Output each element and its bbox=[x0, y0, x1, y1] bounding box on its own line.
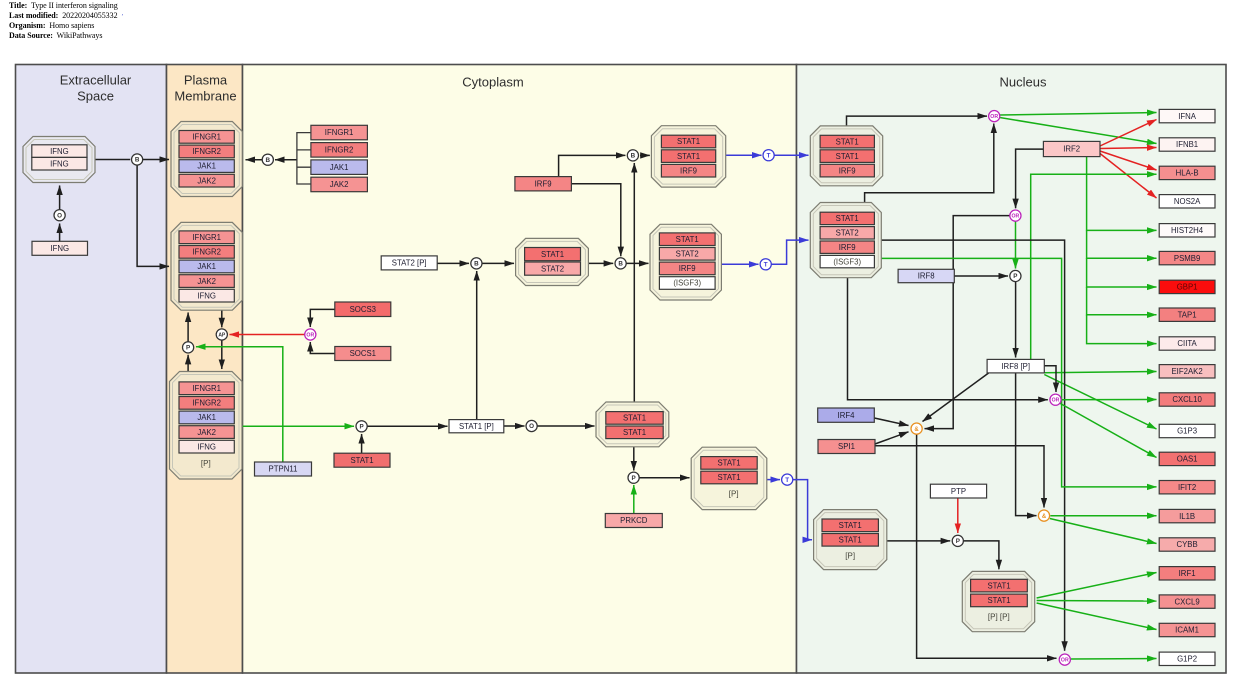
node OR nucleus top bbox=[989, 111, 1000, 122]
svg-text:STAT1: STAT1 bbox=[836, 214, 859, 223]
gene IFNGR1 free bbox=[311, 125, 368, 140]
svg-text:STAT1: STAT1 bbox=[676, 235, 699, 244]
svg-text:(ISGF3): (ISGF3) bbox=[673, 279, 701, 288]
stimulation IRF2 to PSMB9 (green) bbox=[1087, 230, 1157, 258]
metabolite STAT1 [P] bbox=[449, 420, 504, 433]
node OR IRF8P bbox=[1050, 394, 1061, 405]
stimulation ISGF3 complex to IFIT2 (green) bbox=[881, 258, 1156, 487]
node O oligomerisation bbox=[54, 210, 65, 221]
wire bracket group to B node bbox=[275, 159, 297, 161]
gene STAT1 bbox=[606, 412, 663, 425]
wire membrane complex 3 up to P node bbox=[187, 355, 189, 372]
svg-text:B: B bbox=[135, 157, 140, 164]
svg-text:IFNG: IFNG bbox=[50, 147, 69, 156]
stimulation IRF2 to TAP1 (green) bbox=[1087, 287, 1157, 315]
svg-text:OR: OR bbox=[1061, 658, 1069, 664]
wire IRF4 to AND node bbox=[874, 418, 908, 426]
node P PTP bbox=[952, 535, 963, 546]
wire AND node down to OR node bbox=[917, 434, 1057, 658]
target gene PSMB9 bbox=[1159, 251, 1215, 264]
gene JAK2 bbox=[179, 426, 234, 439]
svg-text:CIITA: CIITA bbox=[1177, 339, 1197, 348]
target gene IRF1 bbox=[1159, 567, 1215, 580]
svg-text:IRF1: IRF1 bbox=[1179, 569, 1196, 578]
gene IRF9 bbox=[820, 241, 874, 253]
gene JAK1 free bbox=[311, 160, 368, 175]
svg-text:PTPN11: PTPN11 bbox=[269, 465, 298, 474]
svg-text:STAT1: STAT1 bbox=[677, 152, 700, 161]
metabolite PTP bbox=[930, 484, 986, 498]
svg-text:Plasma: Plasma bbox=[184, 73, 228, 88]
bracket for IFNGR1/IFNGR2/JAK1/JAK2 group bbox=[297, 133, 311, 184]
gene STAT1 bbox=[701, 471, 757, 484]
gene IFNGR1 bbox=[179, 131, 234, 144]
svg-text:OAS1: OAS1 bbox=[1177, 455, 1198, 464]
svg-text:G1P2: G1P2 bbox=[1177, 655, 1197, 664]
stimulation nucleus complex D to CXCL9 (green) bbox=[1037, 600, 1157, 603]
wire B node to STAT1-STAT2 complex bbox=[482, 262, 514, 264]
gene STAT1 bbox=[820, 135, 874, 148]
gene IRF9 bbox=[661, 164, 715, 177]
gene IFNGR2 bbox=[179, 246, 234, 259]
gene IFNG bbox=[179, 289, 234, 302]
stimulation IRF8 [P] to EIF2AK2 (green) bbox=[1044, 372, 1156, 373]
wire STAT1-STAT1 complex up to B node bbox=[633, 163, 635, 402]
svg-text:STAT1: STAT1 bbox=[541, 250, 564, 259]
node B binding free group bbox=[262, 154, 273, 165]
svg-text:[P]: [P] bbox=[845, 552, 855, 561]
gene IRF2 bbox=[1043, 141, 1100, 156]
gene STAT1 bbox=[701, 457, 757, 470]
gene STAT2 bbox=[525, 262, 581, 275]
svg-text:IFNGR1: IFNGR1 bbox=[192, 133, 221, 142]
gene IRF9 bbox=[659, 262, 715, 275]
stimulation OR node to IFNA (green) bbox=[1000, 113, 1157, 116]
gene JAK1 bbox=[179, 160, 234, 173]
target gene NOS2A bbox=[1159, 195, 1215, 208]
svg-text:STAT1: STAT1 bbox=[623, 428, 646, 437]
wire B node to membrane complex 1 bbox=[143, 159, 169, 161]
node AND 2 bbox=[1038, 510, 1049, 521]
wire IRF8 [P] to OR node bbox=[1044, 366, 1056, 392]
node AND 1 bbox=[911, 423, 922, 434]
wire nucleus complex B up to OR node bbox=[865, 124, 994, 203]
svg-text:IFNA: IFNA bbox=[1178, 112, 1197, 121]
gene JAK1 bbox=[179, 260, 234, 273]
svg-text:STAT1: STAT1 bbox=[987, 596, 1010, 605]
svg-text:O: O bbox=[57, 212, 62, 219]
gene IRF8 bbox=[898, 269, 954, 282]
svg-text:IFNG: IFNG bbox=[197, 442, 216, 451]
stimulation IRF2 to CIITA (green) bbox=[1087, 315, 1157, 344]
transport ISGF3 complex to T node (blue) bbox=[721, 263, 758, 265]
gene IFNG bbox=[32, 241, 88, 255]
wire STAT1-STAT2 complex to B node bbox=[588, 262, 613, 264]
svg-text:CXCL9: CXCL9 bbox=[1175, 597, 1200, 606]
wire P node to STAT1 [P] bbox=[367, 425, 447, 427]
node B STAT1 homodimer IRF9 bbox=[627, 150, 638, 161]
svg-text:JAK1: JAK1 bbox=[197, 162, 216, 171]
wire STAT1 [P] up to B node bbox=[476, 271, 478, 420]
node P membrane bbox=[183, 342, 194, 353]
wire IRF2 to OR node bbox=[1016, 149, 1044, 208]
wire nucleus complex C to P node bbox=[887, 540, 950, 542]
svg-text:JAK1: JAK1 bbox=[197, 262, 216, 271]
svg-text:STAT1: STAT1 bbox=[836, 152, 859, 161]
svg-text:Membrane: Membrane bbox=[174, 89, 236, 104]
svg-text:B: B bbox=[631, 153, 636, 160]
complex STAT1-STAT1 [P][P] nucleus bbox=[962, 571, 1034, 631]
stimulation IRF2 to GBP1 (green) bbox=[1087, 258, 1157, 287]
svg-text:IFNGR2: IFNGR2 bbox=[192, 248, 221, 257]
stimulation OR node to IFNB1 (green) bbox=[1000, 118, 1157, 144]
svg-text:STAT1: STAT1 bbox=[839, 536, 862, 545]
node B binding extracellular bbox=[132, 154, 143, 165]
svg-text:STAT1: STAT1 bbox=[677, 137, 700, 146]
complex STAT1-STAT1 [P] nucleus bbox=[814, 510, 887, 570]
target gene GBP1 bbox=[1159, 280, 1215, 293]
compartment Cytoplasm bbox=[243, 65, 797, 674]
wire nucleus complex A to OR node bbox=[847, 116, 988, 126]
gene STAT1 bbox=[820, 150, 874, 163]
svg-text:PSMB9: PSMB9 bbox=[1174, 254, 1200, 263]
svg-text:STAT2: STAT2 bbox=[676, 250, 699, 259]
gene SPI1 bbox=[818, 440, 875, 454]
gene IFNGR1 bbox=[179, 382, 234, 395]
gene PRKCD bbox=[605, 514, 662, 528]
target gene IFIT2 bbox=[1159, 481, 1215, 494]
compartment Extracellular Space bbox=[16, 65, 167, 674]
stimulation nucleus complex D to ICAM1 (green) bbox=[1037, 603, 1157, 630]
svg-text:PRKCD: PRKCD bbox=[620, 516, 648, 525]
svg-text:GBP1: GBP1 bbox=[1177, 283, 1198, 292]
node T transport top (blue) bbox=[763, 150, 774, 161]
svg-text:IFNG: IFNG bbox=[50, 244, 69, 253]
target gene G1P2 bbox=[1159, 652, 1215, 665]
complex STAT1-STAT1-IRF9 nucleus bbox=[810, 126, 882, 186]
gene IFNGR2 free bbox=[311, 143, 368, 158]
stimulation AND node 2 to CYBB (green) bbox=[1050, 519, 1157, 544]
wire B node into membrane complex 1 right bbox=[246, 159, 263, 161]
gene IFNGR2 bbox=[179, 145, 234, 158]
target gene CIITA bbox=[1159, 337, 1215, 350]
svg-text:STAT1: STAT1 bbox=[987, 581, 1010, 590]
compartment Nucleus bbox=[797, 65, 1227, 674]
complex STAT1-STAT1 bbox=[596, 402, 669, 447]
gene JAK1 bbox=[179, 411, 234, 424]
svg-text:&: & bbox=[1042, 514, 1047, 520]
svg-text:HIST2H4: HIST2H4 bbox=[1171, 226, 1204, 235]
node OR IRF2 bbox=[1010, 210, 1021, 221]
svg-text:IRF9: IRF9 bbox=[680, 166, 697, 175]
svg-text:IFNG: IFNG bbox=[197, 291, 216, 300]
svg-text:P: P bbox=[359, 424, 363, 431]
svg-text:B: B bbox=[474, 261, 479, 268]
stimulation OR node to CXCL10 (green) bbox=[1061, 399, 1156, 401]
svg-text:Nucleus: Nucleus bbox=[1000, 75, 1047, 90]
svg-text:AP: AP bbox=[218, 332, 226, 338]
node OR SOCS bbox=[305, 329, 316, 340]
target gene CYBB bbox=[1159, 538, 1215, 551]
stimulation IRF2 to HIST2H4 (green) bbox=[1087, 157, 1157, 231]
wire IFNG complex to B node bbox=[95, 159, 130, 161]
wire IRF8 [P] down to AND node 2 bbox=[1016, 373, 1037, 516]
wire SOCS3 to OR node bbox=[310, 309, 335, 327]
svg-text:IFNGR1: IFNGR1 bbox=[192, 384, 221, 393]
target gene ICAM1 bbox=[1159, 623, 1215, 636]
target gene HLA-B bbox=[1159, 166, 1215, 179]
complex ISGF3 nucleus bbox=[810, 203, 881, 278]
gene JAK2 free bbox=[311, 177, 368, 192]
svg-text:IRF9: IRF9 bbox=[839, 166, 856, 175]
wire nucleus complex B right to OR node bottom bbox=[881, 240, 1064, 651]
gene STAT1 bbox=[822, 534, 878, 547]
target gene CXCL9 bbox=[1159, 595, 1215, 608]
svg-text:SOCS3: SOCS3 bbox=[350, 305, 376, 314]
wire IRF8 to P node bbox=[954, 275, 1008, 277]
svg-text:JAK2: JAK2 bbox=[197, 176, 216, 185]
wire SPI1 right and down to AND node 2 bbox=[875, 446, 1044, 508]
svg-text:IFNGR2: IFNGR2 bbox=[192, 147, 221, 156]
target gene IFNA bbox=[1159, 109, 1215, 122]
wire O node up to IFNG complex bbox=[59, 186, 61, 210]
target gene EIF2AK2 bbox=[1159, 365, 1215, 378]
svg-text:SOCS1: SOCS1 bbox=[350, 349, 376, 358]
inhibition IRF2 to IFNB1 (red) bbox=[1100, 148, 1157, 149]
transport T node into nucleus complex B (blue) bbox=[772, 240, 809, 264]
stimulation nucleus complex D to IRF1 (green) bbox=[1037, 573, 1157, 599]
stimulation IRF8 [P] to G1P3 (green) bbox=[1044, 375, 1156, 430]
wire nucleus complex B down to OR node bbox=[848, 278, 1048, 400]
svg-text:P: P bbox=[1013, 273, 1017, 280]
wire B node to ISGF3 complex bbox=[626, 262, 648, 264]
svg-text:Space: Space bbox=[77, 89, 114, 104]
svg-text:B: B bbox=[266, 157, 271, 164]
node P IRF8 bbox=[1010, 270, 1021, 281]
svg-text:JAK1: JAK1 bbox=[330, 163, 349, 172]
stimulation membrane complex 3 to P node (green) bbox=[242, 425, 354, 427]
wire IRF9 up and right to B node bbox=[559, 155, 626, 176]
svg-text:EIF2AK2: EIF2AK2 bbox=[1171, 367, 1202, 376]
svg-text:&: & bbox=[914, 427, 919, 433]
svg-text:IRF4: IRF4 bbox=[838, 411, 856, 420]
svg-text:STAT1: STAT1 bbox=[836, 137, 859, 146]
complex receptor membrane bottom phosphorylated bbox=[170, 372, 243, 480]
gene STAT1 bbox=[661, 135, 715, 148]
gene STAT1 bbox=[971, 594, 1028, 607]
wire B node to STAT1-STAT1-IRF9 complex bbox=[640, 154, 650, 156]
svg-text:IFNB1: IFNB1 bbox=[1176, 140, 1198, 149]
svg-text:STAT1: STAT1 bbox=[717, 473, 740, 482]
svg-text:IRF8: IRF8 bbox=[918, 272, 935, 281]
svg-text:[P] [P]: [P] [P] bbox=[988, 613, 1010, 622]
label (ISGF3) bbox=[659, 277, 715, 290]
node T transport ISGF3 (blue) bbox=[760, 259, 771, 270]
svg-text:STAT1: STAT1 bbox=[623, 414, 646, 423]
svg-text:STAT1: STAT1 bbox=[839, 521, 862, 530]
target gene TAP1 bbox=[1159, 308, 1215, 321]
svg-text:IFNGR2: IFNGR2 bbox=[325, 146, 354, 155]
svg-text:STAT2 [P]: STAT2 [P] bbox=[392, 259, 427, 268]
wire IRF8 [P] to AND node diagonal bbox=[923, 373, 989, 422]
svg-text:IRF8 [P]: IRF8 [P] bbox=[1001, 362, 1030, 371]
inhibition OR node to AP node (red) bbox=[230, 334, 305, 336]
gene IFNG bbox=[32, 145, 87, 158]
svg-text:[P]: [P] bbox=[201, 459, 211, 468]
node O STAT1 dimerisation bbox=[526, 420, 537, 431]
target gene CXCL10 bbox=[1159, 393, 1215, 406]
svg-text:STAT1: STAT1 bbox=[350, 456, 373, 465]
wire P node up to membrane complex 2 bbox=[187, 313, 189, 342]
stimulation PRKCD to P node (green) bbox=[633, 485, 635, 514]
target gene G1P3 bbox=[1159, 424, 1215, 437]
stimulation IRF8 [P] to HLA-B (green) bbox=[1031, 174, 1157, 359]
header title block bbox=[9, 1, 118, 10]
complex receptor membrane top bbox=[171, 122, 242, 197]
svg-text:IFNG: IFNG bbox=[50, 159, 69, 168]
inhibition IRF2 to HLA-B (red) bbox=[1100, 151, 1157, 170]
target gene IL1B bbox=[1159, 509, 1215, 522]
svg-text:OR: OR bbox=[1052, 398, 1060, 404]
svg-text:IFIT2: IFIT2 bbox=[1178, 483, 1196, 492]
inhibition IRF2 to IFNA (red) bbox=[1100, 120, 1157, 147]
node OR bottom bbox=[1059, 654, 1070, 665]
svg-text:T: T bbox=[785, 477, 789, 484]
svg-text:IRF9: IRF9 bbox=[679, 264, 696, 273]
gene STAT1 bbox=[606, 426, 663, 439]
gene SOCS3 bbox=[335, 302, 391, 317]
wire STAT2 [P] to B node bbox=[437, 262, 469, 264]
compartment Plasma Membrane bbox=[167, 65, 243, 674]
svg-text:IFNGR1: IFNGR1 bbox=[192, 233, 221, 242]
svg-text:JAK2: JAK2 bbox=[330, 180, 349, 189]
gene JAK2 bbox=[179, 174, 234, 187]
svg-text:HLA-B: HLA-B bbox=[1176, 169, 1199, 178]
svg-text:JAK2: JAK2 bbox=[197, 428, 216, 437]
svg-text:P: P bbox=[186, 345, 190, 352]
wire membrane complex 2 down to AP node bbox=[221, 310, 223, 327]
svg-text:PTP: PTP bbox=[951, 487, 966, 496]
node B STAT2 bbox=[471, 258, 482, 269]
gene IFNGR1 bbox=[179, 231, 234, 244]
wire O node to STAT1-STAT1 complex bbox=[537, 425, 594, 427]
svg-text:IRF2: IRF2 bbox=[1063, 145, 1080, 154]
gene STAT1 bbox=[971, 579, 1028, 592]
gene IFNG bbox=[32, 157, 87, 170]
inhibition PTP to P node (red) bbox=[957, 498, 959, 533]
complex STAT1-STAT1-IRF9 cytoplasm bbox=[651, 126, 725, 187]
svg-text:STAT1 [P]: STAT1 [P] bbox=[459, 422, 494, 431]
transport T node into nucleus complex A (blue) bbox=[774, 154, 808, 156]
svg-text:STAT1: STAT1 bbox=[717, 459, 740, 468]
inhibition IRF2 to NOS2A (red) bbox=[1100, 154, 1157, 199]
svg-text:Cytoplasm: Cytoplasm bbox=[462, 75, 523, 90]
transport STAT1-STAT1-IRF9 complex to T node (blue) bbox=[726, 154, 762, 156]
svg-text:SPI1: SPI1 bbox=[838, 442, 855, 451]
svg-text:IFNGR1: IFNGR1 bbox=[325, 128, 354, 137]
svg-text:P: P bbox=[956, 538, 960, 545]
gene STAT1 bbox=[822, 519, 878, 532]
wire OR node to AND node bbox=[925, 216, 1010, 429]
stimulation OR node to G1P2 (green) bbox=[1071, 658, 1157, 661]
wire SOCS1 to OR node bbox=[310, 342, 335, 354]
complex STAT1-STAT2 bbox=[516, 238, 589, 285]
svg-text:O: O bbox=[529, 423, 534, 430]
node AP bbox=[216, 329, 227, 340]
wire IRF9 right and down to B node bbox=[571, 184, 620, 257]
svg-text:P: P bbox=[631, 475, 635, 482]
gene STAT1 bbox=[661, 150, 715, 163]
metabolite STAT2 [P] bbox=[381, 256, 437, 270]
gene IRF4 bbox=[818, 408, 875, 422]
svg-text:B: B bbox=[618, 261, 623, 268]
svg-text:JAK1: JAK1 bbox=[197, 413, 216, 422]
wire IFNG box up to O node bbox=[59, 224, 61, 242]
gene STAT1 bbox=[659, 233, 715, 246]
gene STAT1 bbox=[820, 212, 874, 224]
target gene IFNB1 bbox=[1159, 138, 1215, 151]
wire SPI1 to AND node bbox=[875, 432, 909, 444]
svg-text:IRF9: IRF9 bbox=[839, 243, 856, 252]
gene IRF9 bbox=[515, 177, 572, 191]
complex IFNG-IFNG extracellular bbox=[23, 137, 95, 183]
wire STAT1-STAT1 complex down to P node bbox=[633, 447, 635, 471]
svg-text:T: T bbox=[767, 152, 771, 159]
svg-text:TAP1: TAP1 bbox=[1178, 310, 1197, 319]
wire P node to STAT1-STAT1 [P] complex bbox=[639, 477, 689, 479]
svg-text:OR: OR bbox=[990, 114, 998, 120]
wire STAT1 to P node bbox=[361, 434, 363, 453]
gene STAT2 bbox=[820, 227, 874, 239]
stimulation OR node to P node (green) bbox=[1015, 221, 1017, 268]
svg-text:G1P3: G1P3 bbox=[1177, 427, 1197, 436]
gene STAT1 bbox=[525, 248, 581, 261]
svg-text:IFNGR2: IFNGR2 bbox=[192, 399, 221, 408]
svg-text:NOS2A: NOS2A bbox=[1174, 197, 1201, 206]
wire P node to nucleus complex D bbox=[963, 541, 999, 569]
node B STAT1-STAT2 to ISGF3 bbox=[615, 258, 626, 269]
gene PTPN11 bbox=[255, 462, 312, 476]
transport STAT1-STAT1 [P] complex to T node (blue) bbox=[767, 479, 780, 481]
node T transport STAT1 dimer (blue) bbox=[782, 474, 793, 485]
wire B node down and right to membrane complex 2 bbox=[137, 165, 169, 266]
complex receptor membrane middle bbox=[171, 222, 242, 310]
svg-text:STAT2: STAT2 bbox=[541, 264, 564, 273]
node P PRKCD bbox=[628, 472, 639, 483]
svg-text:CYBB: CYBB bbox=[1176, 540, 1197, 549]
wire STAT1 [P] to O node bbox=[504, 425, 525, 427]
target gene HIST2H4 bbox=[1159, 224, 1215, 237]
gene IRF9 bbox=[820, 164, 874, 177]
svg-text:ICAM1: ICAM1 bbox=[1175, 626, 1199, 635]
svg-text:Extracellular: Extracellular bbox=[60, 73, 132, 88]
svg-text:(ISGF3): (ISGF3) bbox=[833, 257, 861, 266]
svg-text:JAK2: JAK2 bbox=[197, 277, 216, 286]
svg-text:IRF9: IRF9 bbox=[535, 179, 552, 188]
svg-text:OR: OR bbox=[1012, 214, 1020, 220]
svg-text:IL1B: IL1B bbox=[1179, 512, 1195, 521]
target gene OAS1 bbox=[1159, 452, 1215, 465]
svg-text:OR: OR bbox=[306, 332, 314, 338]
svg-text:T: T bbox=[764, 262, 768, 269]
gene JAK2 bbox=[179, 275, 234, 288]
gene SOCS1 bbox=[335, 347, 391, 361]
svg-text:[P]: [P] bbox=[729, 490, 739, 499]
svg-text:CXCL10: CXCL10 bbox=[1172, 395, 1202, 404]
stimulation OR node to OAS1 (green) bbox=[1060, 403, 1157, 458]
node P STAT1 phosphorylation bbox=[356, 421, 367, 432]
stimulation AND node 2 to IL1B (green) bbox=[1050, 515, 1156, 517]
